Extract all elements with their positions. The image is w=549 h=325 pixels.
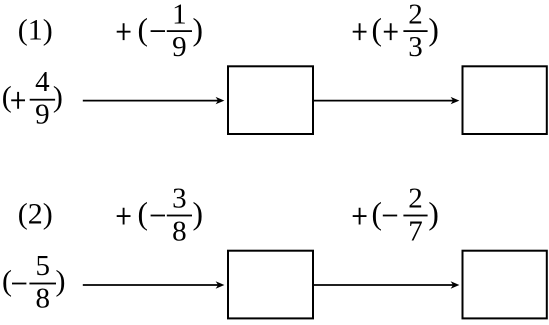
arrow 2: [314, 97, 460, 104]
operation label +(+2/3): [353, 0, 439, 63]
fraction 2/3: [403, 0, 427, 63]
arrow 3: [83, 281, 225, 288]
svg-text:): ): [428, 12, 439, 47]
arrow 1: [83, 97, 225, 104]
svg-text:(: (: [371, 196, 382, 231]
svg-text:4: 4: [35, 66, 50, 98]
operation label +(-1/9): [117, 0, 203, 63]
svg-text:(: (: [137, 12, 148, 47]
fraction 4/9: [30, 66, 55, 131]
fraction 3/8: [167, 183, 192, 248]
svg-text:3: 3: [172, 183, 187, 215]
svg-text:(: (: [2, 81, 12, 114]
svg-text:2: 2: [408, 183, 423, 215]
box 2 (row 1 second result): [463, 66, 547, 134]
operation label +(-2/7): [353, 183, 439, 248]
svg-text:1: 1: [172, 0, 187, 30]
fraction 1/9: [167, 0, 192, 63]
svg-text:8: 8: [172, 216, 187, 248]
svg-text:): ): [193, 196, 204, 231]
box 3 (row 2 first result): [228, 251, 313, 319]
svg-text:9: 9: [172, 31, 187, 63]
svg-text:): ): [56, 264, 66, 297]
svg-text:): ): [53, 81, 63, 114]
svg-text:): ): [193, 12, 204, 47]
svg-text:7: 7: [408, 216, 423, 248]
operation label +(-3/8): [117, 183, 203, 248]
svg-text:(: (: [137, 196, 148, 231]
svg-text:9: 9: [35, 99, 50, 131]
box 1 (row 1 first result): [228, 66, 313, 134]
svg-text:(1): (1): [18, 13, 53, 46]
start value (-5/8): [2, 250, 66, 315]
start value (+4/9): [2, 66, 63, 131]
svg-text:8: 8: [35, 283, 50, 315]
svg-text:(: (: [371, 12, 382, 47]
svg-text:(: (: [2, 264, 12, 297]
box 4 (row 2 second result): [463, 251, 547, 319]
fraction 2/7: [403, 183, 427, 248]
svg-text:3: 3: [408, 31, 423, 63]
arrow 4: [314, 281, 460, 288]
svg-text:5: 5: [35, 250, 50, 282]
svg-text:): ): [428, 196, 439, 231]
fraction 5/8: [29, 250, 56, 315]
svg-text:2: 2: [408, 0, 423, 30]
svg-text:(2): (2): [18, 198, 53, 231]
